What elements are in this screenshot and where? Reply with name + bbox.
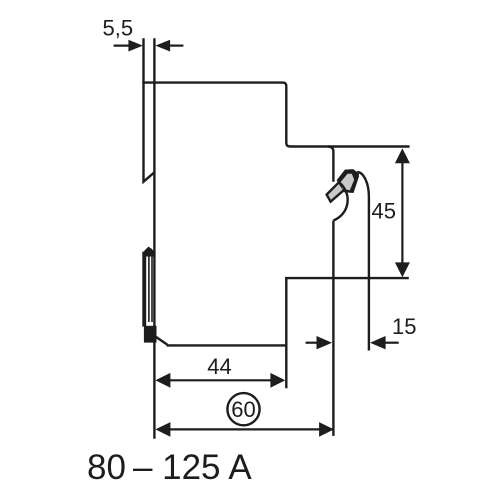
dimension 5,5 xyxy=(114,40,184,52)
dimension 60 xyxy=(155,422,334,437)
45 bottom arrowhead xyxy=(395,262,410,277)
15 left leader line xyxy=(306,342,318,344)
44 dimension line xyxy=(158,379,283,381)
terminal cover curve and front-most face x=369 xyxy=(357,172,369,351)
15 right leader line xyxy=(384,342,399,344)
lug head gray core xyxy=(340,174,354,191)
clip bottom block xyxy=(144,326,157,343)
45 dimension line xyxy=(401,152,403,273)
svg-text:44: 44 xyxy=(207,354,231,379)
body outline: top edge, upper front face, step, 45-extension xyxy=(142,83,409,147)
45 top arrowhead xyxy=(395,148,410,163)
svg-text:5,5: 5,5 xyxy=(103,15,134,40)
15 left arrowhead xyxy=(317,336,333,349)
60 circle xyxy=(227,393,259,425)
60 left arrowhead xyxy=(155,422,170,437)
15 right arrowhead xyxy=(370,336,386,349)
DIN rail clip xyxy=(142,247,156,343)
terminal recess upper vertical with corner xyxy=(328,147,333,182)
svg-text:60: 60 xyxy=(231,397,255,422)
5,5 left leader line xyxy=(114,44,130,46)
bottom notch vertical x=286 / 44-extension xyxy=(285,278,287,388)
svg-text:45: 45 xyxy=(372,198,396,223)
terminal cavity arc (drawn over lug) xyxy=(333,182,347,221)
bottom diagonal from clip to bottom edge xyxy=(155,336,168,345)
44 right arrowhead xyxy=(270,373,285,388)
dimension 44 xyxy=(155,373,285,388)
clip inner leaf 2 xyxy=(151,255,153,322)
front lower vertical / extension line x=333 xyxy=(332,221,334,436)
5,5 left arrowhead xyxy=(128,40,143,52)
dimension 15 xyxy=(306,336,399,349)
clip outer leaf xyxy=(142,252,146,327)
svg-text:15: 15 xyxy=(392,314,416,339)
bottom notch horizontal y=278 and 45-extension xyxy=(285,277,409,279)
clip top cap xyxy=(144,247,154,257)
60 dimension line xyxy=(158,428,333,430)
body bottom edge xyxy=(167,344,288,346)
5,5 right leader line xyxy=(169,44,183,46)
lug head outer black xyxy=(337,169,359,193)
svg-text:80 – 125 A: 80 – 125 A xyxy=(87,448,252,487)
rear fin right line / body back edge (extension to bottom) xyxy=(153,38,155,439)
terminal pin lug at 45 degrees xyxy=(327,169,359,202)
60 right arrowhead xyxy=(319,422,334,437)
clip inner leaf 1 xyxy=(148,255,150,322)
5,5 right arrowhead xyxy=(155,40,170,52)
44 left arrowhead xyxy=(155,373,170,388)
rear fin left line xyxy=(144,38,155,182)
dimension 45 xyxy=(395,148,410,277)
lug shaft xyxy=(327,182,346,202)
